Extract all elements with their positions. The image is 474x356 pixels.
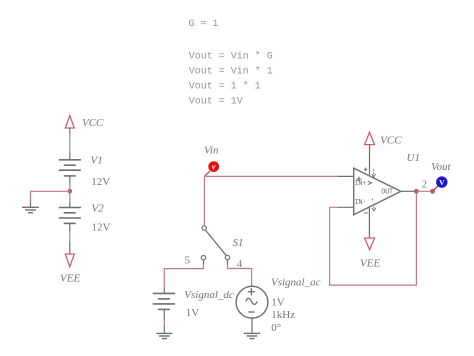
svg-text:V1: V1 (91, 155, 103, 167)
svg-text:U1: U1 (407, 152, 420, 164)
svg-text:Vout = Vin * 1: Vout = Vin * 1 (189, 66, 273, 78)
ground (left) (22, 207, 39, 212)
svg-text:Vsignal_dc: Vsignal_dc (184, 289, 234, 301)
power symbol VEE (left) (65, 254, 74, 267)
switch S1 (201, 226, 229, 260)
wire node to V2 (69, 191, 71, 201)
node junction between V1 and V2 (68, 189, 73, 194)
power symbol VCC (op-amp) (365, 132, 375, 144)
wire V2 to VEE (69, 231, 71, 242)
op-amp supply - marker (364, 199, 376, 213)
wire Vin node down to switch (203, 176, 205, 225)
battery V1 (59, 160, 81, 176)
wire op-amp V- pin to VEE (368, 208, 370, 238)
wire feedback loop output to IN- (330, 194, 417, 285)
wire op-amp output (401, 190, 414, 192)
svg-text:G = 1: G = 1 (188, 19, 218, 30)
svg-text:5: 5 (185, 254, 191, 266)
battery Vsignal_dc (153, 293, 176, 309)
svg-text:IN+: IN+ (355, 180, 367, 188)
wire output to probe tap (416, 190, 432, 192)
probe Vout (434, 186, 438, 190)
ground (below Vsignal_ac) (244, 333, 260, 338)
svg-text:v: v (212, 163, 216, 172)
power symbol VCC (left) (65, 116, 74, 128)
node probe junction (430, 189, 435, 194)
svg-text:Vsignal_ac: Vsignal_ac (271, 277, 321, 289)
svg-text:VCC: VCC (380, 135, 402, 147)
svg-text:1V: 1V (271, 296, 285, 308)
svg-text:OUT: OUT (381, 189, 393, 197)
node output junction (414, 189, 419, 194)
svg-text:Vout: Vout (431, 161, 452, 173)
power symbol VEE (op-amp) (365, 238, 375, 250)
svg-text:IN-: IN- (355, 199, 367, 207)
wire Vin node to op-amp IN+ (204, 175, 337, 177)
svg-text:2: 2 (422, 178, 428, 190)
svg-text:1kHz: 1kHz (271, 309, 295, 321)
svg-text:0°: 0° (271, 322, 281, 334)
svg-text:VEE: VEE (60, 273, 80, 285)
svg-text:Vin: Vin (204, 144, 219, 156)
svg-text:12V: 12V (92, 222, 111, 234)
op-amp supply + marker (364, 168, 376, 177)
op-amp U1 (354, 168, 401, 215)
svg-text:S1: S1 (233, 237, 244, 249)
ground (below Vsignal_dc) (156, 333, 172, 338)
svg-text:Vout = Vin * G: Vout = Vin * G (189, 51, 273, 63)
wire switch pin4 to Vsignal_ac (227, 260, 229, 265)
wire Vsignal_dc to ground (163, 320, 165, 325)
wire VCC to op-amp V+ pin (369, 145, 371, 175)
svg-text:12V: 12V (91, 176, 110, 188)
svg-text:Vout = 1 * 1: Vout = 1 * 1 (189, 81, 261, 93)
wire node to ground (31, 191, 70, 202)
svg-text:V: V (439, 178, 445, 187)
svg-text:V2: V2 (92, 203, 105, 215)
op-amp IN+ label (356, 177, 361, 182)
wire VCC to V1 (69, 128, 71, 134)
svg-text:VEE: VEE (360, 258, 380, 270)
svg-text:VCC: VCC (82, 117, 104, 129)
wire switch pin5 to Vsignal_dc (203, 260, 205, 265)
probe Vin (205, 171, 210, 176)
ac source Vsignal_ac (236, 286, 268, 318)
svg-text:1V: 1V (186, 307, 200, 319)
svg-text:Vout = 1V: Vout = 1V (189, 96, 243, 107)
wire V1 to node (69, 184, 71, 192)
wire Vsignal_ac to ground (251, 318, 253, 325)
battery V2 (59, 208, 81, 224)
